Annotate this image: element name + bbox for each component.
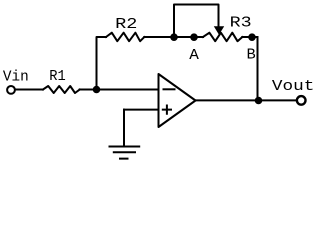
- terminal Vin: [7, 86, 15, 94]
- op-amp plus sign: [163, 106, 171, 114]
- node A: [190, 33, 198, 41]
- node junction R1/R2: [93, 86, 101, 94]
- svg-text:B: B: [247, 47, 257, 63]
- wire input Vin to R1: [16, 89, 44, 91]
- svg-text:R1: R1: [49, 69, 66, 85]
- wire feedback loop to wiper: [174, 5, 219, 38]
- svg-text:R2: R2: [115, 17, 137, 33]
- wiper arrow of R3: [214, 26, 224, 35]
- node B: [248, 33, 256, 41]
- wire to ground: [123, 110, 125, 146]
- resistor R2: [106, 33, 144, 42]
- wire R1 to op-amp inverting input: [80, 89, 159, 91]
- resistor R3: [203, 33, 242, 42]
- wire R3 to node B corner: [242, 36, 257, 38]
- terminal Vout: [297, 96, 306, 105]
- wire R2 to node A: [144, 36, 203, 38]
- op-amp U1: [159, 74, 196, 127]
- svg-text:A: A: [189, 48, 199, 64]
- svg-text:Vin: Vin: [3, 70, 29, 86]
- node junction output: [255, 97, 263, 105]
- svg-text:Vout: Vout: [272, 79, 315, 95]
- wire junction up to R2 line: [97, 37, 107, 90]
- op-amp minus sign: [164, 88, 175, 90]
- node junction R2/loop: [170, 33, 178, 41]
- wire node B down to output: [257, 37, 259, 100]
- resistor R1: [43, 86, 80, 93]
- ground: [110, 147, 140, 159]
- wire output: [196, 99, 297, 101]
- wire noninverting input: [124, 109, 159, 111]
- svg-text:R3: R3: [230, 16, 252, 32]
